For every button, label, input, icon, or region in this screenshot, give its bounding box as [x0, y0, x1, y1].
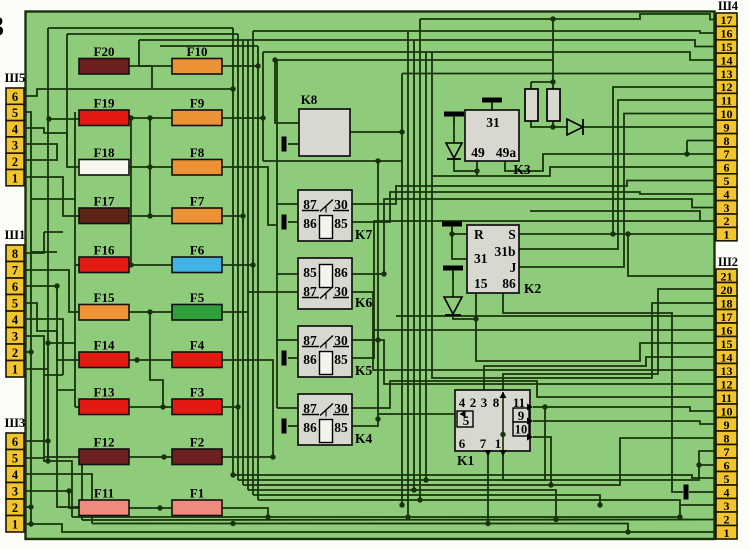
wire Sh1 pin5: [24, 303, 79, 360]
wire F17-F7 link: [129, 215, 172, 217]
wire bus L48: [47, 28, 49, 461]
relay K6: [298, 258, 373, 310]
svg-text:4: 4: [12, 122, 19, 136]
svg-text:87: 87: [303, 401, 317, 416]
svg-text:30: 30: [334, 333, 348, 348]
wire Sh4 p17: [420, 14, 716, 20]
wire F18-F8 link: [129, 166, 172, 168]
wire left jog e: [44, 374, 63, 376]
svg-text:K2: K2: [524, 281, 542, 296]
svg-text:4: 4: [12, 468, 19, 482]
svg-text:11: 11: [721, 94, 732, 108]
ground bar K4: [282, 419, 287, 434]
wire K8 right: [350, 131, 402, 133]
junction: [250, 262, 255, 267]
svg-text:1: 1: [12, 518, 18, 532]
svg-text:F7: F7: [190, 194, 205, 209]
wire bus L277: [276, 60, 278, 408]
connector Sh1: [5, 227, 26, 377]
svg-text:9: 9: [724, 418, 730, 432]
svg-text:5: 5: [12, 452, 18, 466]
wire VD3 down: [453, 315, 476, 319]
wire VD3 stem: [452, 271, 454, 297]
relay K3: [465, 110, 531, 177]
svg-text:F13: F13: [94, 385, 115, 400]
svg-text:20: 20: [721, 283, 733, 297]
relay K8: [299, 92, 350, 156]
svg-text:F9: F9: [190, 96, 205, 111]
svg-text:F18: F18: [94, 145, 115, 160]
wire bus M243 out: [243, 438, 716, 485]
fuse F5: [172, 290, 222, 320]
junction: [548, 482, 553, 487]
wire Sh1 pin8: [24, 232, 44, 253]
junction: [260, 115, 265, 120]
wire Sh5 pin3: [24, 144, 57, 161]
svg-text:11: 11: [721, 391, 732, 405]
K1 pin 5 arrow: [460, 411, 466, 418]
junction: [28, 504, 33, 509]
wire y161 link: [263, 160, 402, 162]
wire Sh3 pin3: [24, 491, 79, 508]
junction: [54, 283, 59, 288]
wire K1 pin1 down: [503, 407, 545, 480]
relay K7: [298, 190, 373, 242]
fuse F10: [172, 44, 222, 74]
wire bus M253: [252, 31, 254, 495]
wire F2 right: [222, 456, 273, 458]
svg-text:10: 10: [721, 107, 733, 121]
wire Sh2 p21: [628, 234, 716, 276]
svg-text:31b: 31b: [494, 244, 515, 259]
wire top loop 1: [48, 27, 233, 29]
K1 pin 8 arrow: [500, 392, 507, 398]
svg-text:12: 12: [721, 80, 733, 94]
svg-text:21: 21: [721, 269, 733, 283]
svg-text:F5: F5: [190, 290, 205, 305]
junction: [553, 517, 558, 522]
svg-text:F1: F1: [190, 486, 204, 501]
wire F6 right: [222, 264, 253, 266]
svg-text:3: 3: [481, 395, 488, 410]
wire Sh4 p9: [583, 126, 716, 128]
svg-text:5: 5: [12, 106, 18, 120]
svg-text:7: 7: [724, 445, 730, 459]
svg-text:6: 6: [12, 435, 18, 449]
wire bottom Bv: [81, 462, 83, 520]
wire K2 86 down: [503, 293, 683, 492]
svg-text:86: 86: [334, 265, 348, 280]
wire y176 stub: [432, 175, 477, 177]
wire left jog b: [44, 231, 63, 233]
wire K7 30 right: [352, 181, 716, 205]
svg-text:13: 13: [721, 67, 733, 81]
svg-text:15: 15: [474, 276, 488, 291]
svg-text:85: 85: [334, 216, 348, 231]
wire Sh4 p13: [402, 73, 716, 75]
svg-text:S: S: [508, 227, 516, 242]
junction: [542, 404, 547, 409]
wire K6 30 right: [352, 292, 716, 370]
junction: [147, 164, 152, 169]
svg-text:86: 86: [502, 276, 516, 291]
svg-text:13: 13: [721, 364, 733, 378]
fuse F1: [172, 486, 222, 516]
svg-text:87: 87: [303, 197, 317, 212]
svg-text:17: 17: [721, 310, 733, 324]
svg-text:K8: K8: [301, 92, 318, 107]
wire Sh5 pin5: [24, 112, 31, 524]
svg-text:Ш5: Ш5: [5, 70, 26, 85]
junction: [235, 404, 240, 409]
svg-text:F3: F3: [190, 385, 205, 400]
svg-text:K3: K3: [513, 162, 531, 177]
wire K3 49 down: [477, 161, 716, 176]
wire res bottom: [531, 121, 567, 127]
junction: [255, 63, 260, 68]
svg-text:Ш1: Ш1: [5, 227, 26, 242]
fuse F4: [172, 338, 222, 368]
junction: [265, 514, 270, 519]
wire K8 top line: [275, 59, 553, 61]
wire K4 30 right: [352, 381, 716, 408]
svg-text:87: 87: [303, 333, 317, 348]
wire F19-F9 link: [129, 117, 172, 119]
wire K3 top bar stem: [491, 103, 493, 110]
diode VD3: [444, 297, 462, 315]
fuse F8: [172, 145, 222, 175]
wire F12-F2 link: [129, 456, 172, 458]
body symbol left of K3: [444, 112, 464, 126]
junction: [423, 477, 428, 482]
svg-text:30: 30: [334, 197, 348, 212]
wire Sh4 p8: [687, 140, 716, 142]
svg-text:86: 86: [303, 216, 317, 231]
wire F10 loop top: [139, 39, 248, 41]
svg-text:F10: F10: [187, 44, 208, 59]
body symbol K2 R: [442, 222, 462, 236]
junction: [381, 271, 386, 276]
svg-text:Ш3: Ш3: [5, 415, 26, 430]
wire Sh4 p16: [253, 31, 716, 33]
svg-text:K7: K7: [355, 227, 373, 242]
junction: [160, 404, 165, 409]
svg-text:6: 6: [12, 280, 18, 294]
svg-text:9: 9: [518, 408, 525, 423]
svg-text:F14: F14: [94, 338, 115, 353]
wire bus M258: [257, 46, 259, 500]
svg-text:15: 15: [721, 40, 733, 54]
wire K7 85 right: [352, 192, 716, 222]
wire K2 15 down: [476, 293, 716, 361]
wire F4 right: [222, 360, 273, 457]
fuse F9: [172, 96, 222, 126]
svg-text:5: 5: [724, 174, 730, 188]
K1 pin 1 arrow: [500, 450, 507, 456]
svg-text:85: 85: [303, 265, 317, 280]
wire bus M238: [237, 34, 239, 480]
svg-text:85: 85: [334, 352, 348, 367]
junction: [473, 316, 478, 321]
wire K5 30 right: [352, 340, 716, 384]
svg-text:4: 4: [724, 187, 730, 201]
svg-text:8: 8: [493, 395, 500, 410]
svg-text:17: 17: [721, 13, 733, 27]
svg-text:14: 14: [721, 53, 733, 67]
wire Sh1 pin2: [24, 351, 31, 353]
wire K6 86 right: [352, 199, 716, 274]
junction: [696, 462, 701, 467]
wire bus M248 out: [248, 490, 556, 519]
wire F1 right: [222, 508, 268, 517]
wire F14-F4 link: [129, 359, 172, 361]
wire F3 right: [222, 406, 238, 408]
wire Sh3 pin1: [24, 524, 716, 532]
wire K8 left: [288, 143, 299, 145]
junction: [610, 231, 615, 236]
ground bar K8: [282, 137, 287, 152]
svg-text:F6: F6: [190, 243, 205, 258]
body symbol above K3: [482, 98, 502, 112]
wire K2 S right: [519, 233, 716, 235]
junction: [147, 309, 152, 314]
junction: [399, 129, 404, 134]
svg-text:8: 8: [724, 134, 730, 148]
junction: [684, 151, 689, 156]
diode VD1: [567, 119, 583, 135]
svg-text:6: 6: [12, 90, 18, 104]
svg-text:2: 2: [724, 512, 730, 526]
body symbol K2 15: [443, 266, 463, 280]
fuse F6: [172, 243, 222, 273]
wire bus M248: [247, 40, 249, 490]
junction: [157, 505, 162, 510]
wire K3 49a down: [505, 154, 716, 171]
junction: [449, 231, 454, 236]
svg-text:R: R: [474, 227, 484, 242]
relay K5: [298, 326, 373, 378]
svg-text:2: 2: [12, 155, 18, 169]
wire K1 out3: [533, 437, 551, 485]
wire bottom A: [72, 505, 716, 517]
junction: [399, 502, 404, 507]
wire Sh1 pin7: [24, 270, 79, 312]
wire Sh4 p14: [263, 52, 716, 60]
wire bus M233 out: [233, 475, 716, 478]
svg-text:14: 14: [721, 350, 733, 364]
wire K7 87 left: [277, 203, 298, 205]
wire K1 pin8 up2: [503, 289, 716, 390]
fuse F12: [79, 435, 129, 465]
wire bus M243: [242, 40, 244, 485]
svg-text:31: 31: [474, 251, 488, 266]
fuse F20: [79, 44, 129, 74]
svg-text:1: 1: [12, 363, 18, 377]
svg-text:2: 2: [470, 395, 477, 410]
svg-text:J: J: [510, 260, 517, 275]
ground bar Sh2 pin4: [684, 485, 689, 500]
wire K4 85 right: [352, 161, 378, 426]
svg-text:7: 7: [480, 436, 487, 451]
wire F16-F6 link: [129, 264, 172, 266]
junction: [66, 488, 71, 493]
wire bus M258 out: [258, 499, 420, 501]
wire Sh5 pin1: [24, 177, 79, 216]
K1 output arrow: [527, 434, 533, 441]
junction: [134, 357, 139, 362]
wire bus R432: [432, 52, 716, 378]
wire VD2 top: [453, 117, 455, 143]
junction: [405, 514, 410, 519]
svg-text:4: 4: [459, 395, 466, 410]
wire K8 top feed: [275, 60, 299, 123]
K1 pin 7 arrow: [485, 450, 492, 456]
wire bus R414: [413, 40, 415, 490]
svg-text:49a: 49a: [496, 145, 517, 160]
svg-text:3: 3: [12, 139, 18, 153]
svg-text:3: 3: [12, 485, 18, 499]
wire K1 pin3 up: [484, 357, 716, 390]
relay K1: [455, 390, 530, 468]
wire res bottom2: [552, 121, 554, 127]
wire bottom B: [82, 519, 716, 522]
diode VD2: [446, 143, 462, 159]
svg-text:8: 8: [724, 431, 730, 445]
svg-text:K5: K5: [355, 363, 373, 378]
junction: [46, 116, 51, 121]
junction: [272, 57, 277, 62]
wire Sh1 pin1: [24, 368, 48, 370]
wire mid bus 150b: [150, 312, 163, 407]
junction: [375, 158, 380, 163]
svg-text:2: 2: [724, 214, 730, 228]
svg-text:2: 2: [12, 501, 18, 515]
connector Sh4: [716, 0, 739, 242]
wire bus M253 out: [253, 495, 600, 505]
svg-text:31: 31: [486, 115, 500, 130]
relay K2: [467, 225, 542, 296]
wire Sh4 p12: [613, 87, 716, 234]
wire K1 pin5: [378, 413, 457, 415]
wire F10 right: [222, 65, 258, 67]
resistor R2: [547, 89, 560, 121]
wire bus R402: [401, 74, 403, 506]
wire F13 feed: [75, 406, 79, 408]
wire bus M263: [262, 52, 264, 161]
wire Sh2 p7 link: [699, 451, 716, 465]
wire left jog c: [31, 251, 57, 253]
junction: [147, 213, 152, 218]
junction: [161, 454, 166, 459]
wire Sh2 p4 gnd: [689, 491, 716, 493]
svg-text:5: 5: [724, 472, 730, 486]
wire K5 86 bar: [288, 357, 298, 359]
wire K7 86 bar: [288, 221, 298, 223]
junction: [45, 438, 50, 443]
wire K5 85 right: [352, 221, 716, 358]
resistor R1: [525, 89, 538, 121]
wire F8 right: [222, 167, 277, 225]
wire mid bus 131: [130, 118, 132, 265]
junction: [230, 86, 235, 91]
svg-text:18: 18: [721, 296, 733, 310]
wire F7 right: [222, 215, 243, 217]
wire F5 right: [222, 311, 248, 313]
wire K2 31 left: [452, 234, 467, 259]
junction: [270, 454, 275, 459]
wire Sh4 p2: [530, 211, 700, 221]
wire K1 pin9 out: [533, 407, 716, 411]
svg-text:10: 10: [515, 423, 528, 437]
junction: [375, 416, 380, 421]
svg-text:8: 8: [12, 247, 18, 261]
wire mid bus 150a: [149, 118, 151, 216]
connector Sh3: [5, 415, 26, 532]
wire F10 loop: [139, 40, 172, 66]
wire bottom C: [92, 524, 628, 533]
wire K6 85 left: [277, 273, 298, 275]
wire top loop 3: [160, 45, 258, 47]
wire Sh5 pin2: [24, 159, 57, 161]
K1 pin 10 arrow: [527, 418, 533, 425]
relay K4: [298, 394, 373, 446]
wire F16 feed: [75, 264, 79, 266]
svg-text:49: 49: [471, 145, 485, 160]
wire VD2 link: [454, 159, 477, 171]
wire Sh3 pin2: [24, 506, 31, 508]
wire res top: [530, 82, 532, 89]
svg-text:F15: F15: [94, 290, 115, 305]
svg-text:7: 7: [12, 264, 18, 278]
junction: [240, 213, 245, 218]
svg-text:1: 1: [12, 171, 18, 185]
wire bus L75: [74, 112, 76, 407]
wire bus R426: [425, 52, 427, 480]
svg-text:F17: F17: [94, 194, 115, 209]
wire K2 R left: [452, 227, 467, 234]
wire left jog d: [48, 342, 75, 344]
wire Sh4 p15: [248, 40, 716, 47]
wire Sh5 pin4: [24, 128, 79, 167]
junction: [550, 16, 555, 21]
svg-text:F16: F16: [94, 243, 115, 258]
wire K1 pin7 down: [487, 452, 489, 524]
svg-text:F2: F2: [190, 435, 204, 450]
connector Sh2: [716, 255, 738, 540]
svg-text:K4: K4: [355, 431, 373, 446]
wire K2 J right: [519, 114, 716, 268]
wire Sh1 pin6: [24, 286, 79, 507]
wire Sh3 pin5: [24, 458, 48, 461]
junction: [375, 337, 380, 342]
junction: [625, 231, 630, 236]
svg-text:4: 4: [724, 485, 730, 499]
wire top loop 2: [67, 33, 238, 35]
junction: [474, 168, 479, 173]
wire left jog a: [31, 198, 75, 200]
svg-text:3: 3: [12, 330, 18, 344]
svg-text:F11: F11: [94, 486, 114, 501]
svg-text:З: З: [0, 10, 4, 43]
junction: [45, 458, 50, 463]
wire bus R420: [420, 19, 680, 505]
junction: [625, 529, 630, 534]
wire K2 31b right: [519, 100, 716, 249]
svg-text:4: 4: [12, 313, 19, 327]
svg-text:F4: F4: [190, 338, 205, 353]
wire bus L67: [66, 34, 68, 140]
svg-text:K1: K1: [457, 453, 475, 468]
